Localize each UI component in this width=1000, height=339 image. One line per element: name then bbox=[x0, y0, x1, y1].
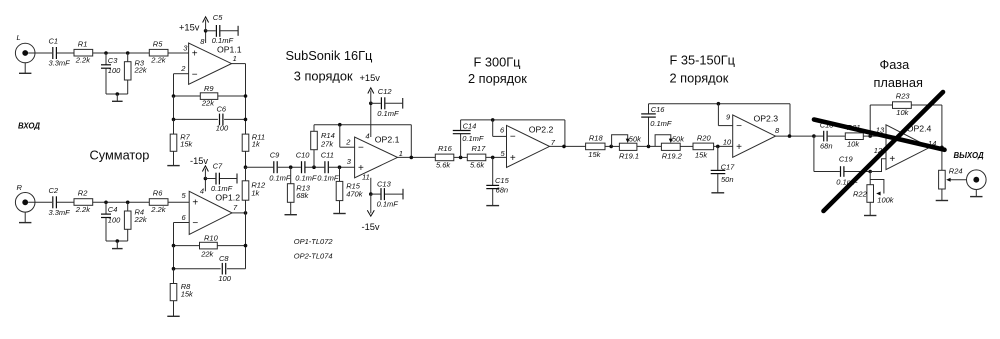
svg-text:C19: C19 bbox=[839, 155, 854, 164]
svg-text:100: 100 bbox=[218, 274, 231, 283]
svg-text:+: + bbox=[510, 153, 516, 164]
wire R18 to R19.1 bbox=[605, 145, 619, 149]
svg-text:+15v: +15v bbox=[179, 23, 200, 33]
svg-text:SubSonik 16Гц: SubSonik 16Гц bbox=[286, 48, 373, 63]
node C3 top bbox=[104, 51, 108, 55]
resistor R6 2.2k bbox=[149, 189, 168, 214]
svg-text:2.2k: 2.2k bbox=[75, 205, 91, 214]
capacitor C10 0.1mF bbox=[295, 151, 317, 183]
svg-text:2 порядок: 2 порядок bbox=[670, 71, 729, 86]
svg-text:27k: 27k bbox=[320, 139, 334, 148]
svg-text:OP2.2: OP2.2 bbox=[529, 125, 554, 135]
wire R20 to OP2.3 pin 10 bbox=[714, 137, 733, 148]
potentiometer R22 100k bbox=[853, 172, 895, 205]
power -15v (OP2.1 pin 11) bbox=[362, 178, 380, 232]
svg-text:0.1mF: 0.1mF bbox=[377, 109, 399, 118]
svg-text:15k: 15k bbox=[181, 289, 194, 298]
op-amp OP2.1 bbox=[355, 131, 403, 181]
wire C19 branch drop bbox=[813, 136, 815, 171]
svg-text:3: 3 bbox=[347, 157, 352, 166]
capacitor C12 0.1mF bbox=[371, 87, 403, 118]
svg-text:0.1mF: 0.1mF bbox=[317, 174, 339, 183]
svg-text:22k: 22k bbox=[134, 66, 148, 75]
svg-text:15k: 15k bbox=[180, 140, 193, 149]
ground (C17) bbox=[711, 192, 724, 194]
power -15v (OP1.2) bbox=[190, 156, 208, 180]
svg-text:+15v: +15v bbox=[360, 73, 381, 83]
svg-text:100: 100 bbox=[108, 215, 121, 224]
svg-text:7: 7 bbox=[551, 138, 556, 147]
resistor R11 1k bbox=[242, 133, 265, 152]
svg-text:Фаза: Фаза bbox=[880, 57, 911, 72]
wire C3/R3 bottom bracket bbox=[106, 80, 128, 96]
svg-text:0.1mF: 0.1mF bbox=[212, 36, 234, 45]
svg-text:R10: R10 bbox=[204, 233, 219, 242]
svg-text:плавная: плавная bbox=[874, 75, 923, 90]
wire jack L to C1 bbox=[28, 52, 52, 54]
svg-text:R23: R23 bbox=[896, 92, 911, 101]
svg-text:ВХОД: ВХОД bbox=[18, 122, 40, 131]
wire OP1.1 pin 8 power stub bbox=[205, 31, 207, 43]
resistor R18 15k bbox=[586, 134, 605, 160]
svg-text:100: 100 bbox=[108, 66, 121, 75]
wire C9 to C10 bbox=[278, 165, 301, 169]
capacitor C11 0.1mF bbox=[317, 151, 339, 183]
svg-text:0.1mF: 0.1mF bbox=[211, 184, 233, 193]
svg-text:1k: 1k bbox=[252, 140, 261, 149]
svg-text:OP2.1: OP2.1 bbox=[375, 134, 400, 144]
svg-text:C6: C6 bbox=[217, 104, 227, 113]
svg-text:C1: C1 bbox=[49, 37, 59, 46]
svg-text:8: 8 bbox=[200, 37, 205, 46]
wire OP2.1 output node bbox=[398, 125, 436, 160]
resistor R5 2.2k bbox=[149, 39, 168, 64]
svg-text:R: R bbox=[17, 183, 23, 192]
wire OP2.1 feedback rail bbox=[314, 123, 411, 127]
svg-text:1: 1 bbox=[233, 54, 237, 63]
jack L bbox=[15, 33, 35, 63]
svg-text:3: 3 bbox=[183, 43, 188, 52]
svg-text:C10: C10 bbox=[296, 151, 311, 160]
wire R10 feedback row bbox=[172, 244, 248, 248]
svg-text:2: 2 bbox=[345, 138, 351, 147]
wire C8 feedback row bbox=[172, 246, 246, 271]
node C18 C19 split bbox=[812, 134, 816, 138]
svg-text:3.3mF: 3.3mF bbox=[49, 59, 71, 68]
svg-text:15k: 15k bbox=[588, 150, 601, 159]
potentiometer R19.2 50k bbox=[655, 135, 685, 161]
svg-text:Сумматор: Сумматор bbox=[90, 147, 150, 162]
resistor R17 5.6k bbox=[467, 144, 486, 170]
svg-text:0.1mF: 0.1mF bbox=[377, 200, 399, 209]
wire OP1.1 output to right rail bbox=[232, 64, 246, 135]
svg-text:0.1mF: 0.1mF bbox=[295, 174, 317, 183]
capacitor C3 100 bbox=[101, 53, 121, 94]
svg-text:OP1.2: OP1.2 bbox=[215, 193, 240, 203]
resistor R3 22k bbox=[124, 53, 147, 80]
svg-text:ВЫХОД: ВЫХОД bbox=[954, 151, 984, 160]
capacitor C7 0.1mF bbox=[205, 162, 237, 194]
svg-text:5.6k: 5.6k bbox=[470, 161, 485, 170]
svg-text:F 35-150Гц: F 35-150Гц bbox=[670, 53, 736, 68]
svg-text:+: + bbox=[192, 49, 198, 60]
svg-text:22k: 22k bbox=[200, 249, 214, 258]
wire OP2.3 feedback rail bbox=[649, 102, 791, 106]
wire C6 feedback row bbox=[172, 96, 248, 121]
ground (R24) bbox=[936, 189, 948, 201]
resistor R7 15k bbox=[170, 119, 193, 151]
svg-text:R6: R6 bbox=[153, 189, 163, 198]
wire OP2.2 feedback rail bbox=[461, 118, 565, 122]
wire C11 to OP2.1 pin 3 bbox=[329, 157, 355, 169]
resistor R8 15k bbox=[170, 269, 194, 301]
wire OP2.1 pin 2 drop bbox=[340, 125, 355, 148]
capacitor C2 3.3mF bbox=[49, 186, 71, 217]
svg-text:C16: C16 bbox=[651, 105, 666, 114]
resistor R2 2.2k bbox=[74, 189, 93, 214]
wire R5 to OP1.1 pin 3 bbox=[168, 43, 189, 53]
svg-text:C4: C4 bbox=[108, 205, 118, 214]
wire OP2.2 pin 6 drop bbox=[493, 120, 507, 136]
resistor R12 1k bbox=[242, 167, 266, 200]
svg-text:5.6k: 5.6k bbox=[436, 161, 451, 170]
ground (R15) bbox=[333, 201, 345, 214]
svg-text:4: 4 bbox=[200, 187, 204, 196]
potentiometer R24 output level bbox=[939, 147, 963, 189]
potentiometer R19.1 50k bbox=[612, 135, 643, 161]
node R3 top bbox=[126, 51, 130, 55]
resistor R16 5.6k bbox=[435, 144, 454, 170]
wire OP2.3 output node bbox=[776, 104, 814, 138]
wire OP1.2 pin 4 power stub bbox=[204, 179, 206, 192]
svg-text:9: 9 bbox=[726, 113, 731, 122]
ground (jack output) bbox=[970, 190, 982, 197]
svg-text:8: 8 bbox=[775, 126, 780, 135]
svg-text:10k: 10k bbox=[847, 139, 860, 148]
jack R bbox=[15, 183, 35, 212]
svg-text:F 300Гц: F 300Гц bbox=[474, 55, 522, 70]
svg-text:0.1mF: 0.1mF bbox=[269, 174, 291, 183]
svg-text:15k: 15k bbox=[695, 151, 708, 160]
ground (R13) bbox=[285, 202, 297, 214]
ground (jack R) bbox=[19, 212, 31, 223]
resistor R9 22k bbox=[200, 84, 218, 108]
svg-text:100k: 100k bbox=[877, 196, 895, 205]
svg-text:-15v: -15v bbox=[362, 222, 380, 232]
svg-text:R16: R16 bbox=[438, 144, 453, 153]
svg-text:6: 6 bbox=[182, 213, 187, 222]
node R4 top bbox=[126, 201, 130, 205]
resistor R21 10k bbox=[845, 123, 863, 148]
resistor R13 68k bbox=[287, 167, 310, 202]
svg-text:OP1.1: OP1.1 bbox=[217, 45, 242, 55]
svg-text:0.1mF: 0.1mF bbox=[650, 119, 672, 128]
svg-text:OP2-TL074: OP2-TL074 bbox=[294, 251, 333, 260]
capacitor C1 3.3mF bbox=[49, 37, 71, 68]
resistor R23 10k bbox=[870, 92, 942, 117]
svg-text:22k: 22k bbox=[134, 215, 148, 224]
svg-text:68k: 68k bbox=[296, 191, 309, 200]
svg-text:3.3mF: 3.3mF bbox=[49, 208, 71, 217]
svg-text:5: 5 bbox=[182, 191, 187, 200]
svg-text:R1: R1 bbox=[78, 39, 88, 48]
power +15v (OP1.1) bbox=[179, 17, 209, 33]
svg-text:R20: R20 bbox=[697, 134, 712, 143]
svg-text:2.2k: 2.2k bbox=[75, 56, 91, 65]
svg-text:C8: C8 bbox=[219, 254, 229, 263]
op-amp OP1.2 bbox=[189, 187, 240, 235]
capacitor C8 100 bbox=[218, 254, 231, 283]
wire jack R to C2 bbox=[28, 201, 52, 203]
wire R17 to OP2.2 pin 5 bbox=[486, 149, 507, 159]
cross stroke steep bbox=[824, 92, 944, 211]
op-amp OP1.1 bbox=[189, 37, 242, 84]
op-amp OP2.3 bbox=[733, 114, 780, 158]
svg-text:−: − bbox=[510, 132, 516, 143]
svg-text:R17: R17 bbox=[472, 144, 487, 153]
wire C2 to R2 bbox=[57, 201, 74, 203]
svg-text:10k: 10k bbox=[896, 108, 909, 117]
svg-text:L: L bbox=[17, 33, 21, 42]
svg-text:2.2k: 2.2k bbox=[150, 56, 166, 65]
resistor R14 27k bbox=[311, 125, 335, 168]
cross stroke shallow bbox=[814, 120, 945, 150]
wire R2 to R6 bbox=[93, 201, 150, 203]
resistor R15 470k bbox=[336, 167, 364, 200]
svg-text:R24: R24 bbox=[949, 167, 963, 176]
svg-text:5: 5 bbox=[501, 149, 506, 158]
power +15v (OP2.1) bbox=[360, 73, 381, 137]
capacitor C6 100 bbox=[216, 104, 229, 132]
svg-text:50k: 50k bbox=[672, 135, 685, 144]
svg-text:R19.1: R19.1 bbox=[619, 152, 639, 161]
wire OP2.3 pin 9 drop bbox=[718, 104, 732, 126]
jack output bbox=[967, 170, 987, 190]
wire R6 to OP1.2 pin 5 bbox=[168, 191, 189, 202]
capacitor C17 50n bbox=[711, 146, 735, 192]
ground (C15) bbox=[486, 205, 499, 207]
wire C10 to C11 bbox=[306, 165, 325, 169]
svg-text:0.1mF: 0.1mF bbox=[462, 134, 484, 143]
capacitor C15 68n bbox=[486, 157, 509, 205]
capacitor C5 0.1mF bbox=[206, 13, 239, 45]
wire R16 to R17 bbox=[454, 156, 468, 160]
svg-text:C14: C14 bbox=[463, 121, 477, 130]
wire C4/R4 bottom bracket bbox=[106, 230, 128, 243]
node C4 top bbox=[104, 201, 108, 205]
svg-text:1k: 1k bbox=[251, 188, 260, 197]
svg-text:−: − bbox=[192, 69, 198, 80]
svg-text:OP2.3: OP2.3 bbox=[754, 114, 779, 124]
capacitor C13 0.1mF bbox=[371, 179, 403, 208]
svg-text:4: 4 bbox=[365, 131, 369, 140]
svg-text:R2: R2 bbox=[78, 189, 88, 198]
svg-text:−: − bbox=[358, 142, 364, 153]
svg-text:-15v: -15v bbox=[190, 156, 208, 166]
svg-text:10: 10 bbox=[723, 137, 732, 146]
svg-text:100: 100 bbox=[216, 124, 229, 133]
svg-text:11: 11 bbox=[362, 172, 370, 181]
svg-text:R9: R9 bbox=[204, 84, 214, 93]
ground (R22) bbox=[864, 202, 876, 215]
wire R1 to node, through to R5 bbox=[93, 52, 150, 54]
op-amp OP2.4 bbox=[886, 124, 936, 170]
svg-text:68n: 68n bbox=[496, 186, 509, 195]
wire OP2.4 feedback right vertical bbox=[930, 105, 944, 149]
wire OP1.2 output to right rail bbox=[232, 200, 247, 269]
wire R24 wiper arrow bbox=[946, 178, 966, 182]
wire R9 feedback row bbox=[172, 94, 248, 98]
svg-text:50n: 50n bbox=[721, 175, 734, 184]
svg-text:−: − bbox=[736, 121, 742, 132]
svg-text:C3: C3 bbox=[108, 56, 118, 65]
resistor R20 15k bbox=[693, 134, 714, 160]
svg-text:+: + bbox=[889, 154, 895, 165]
wire R19.1 to R19.2 bbox=[637, 145, 662, 149]
op-amp OP2.2 bbox=[507, 125, 556, 168]
wire C19 to OP2.4 pin 12 bbox=[868, 146, 886, 173]
resistor R1 2.2k bbox=[74, 39, 93, 64]
svg-text:3 порядок: 3 порядок bbox=[294, 69, 353, 84]
svg-text:R22: R22 bbox=[853, 189, 868, 198]
svg-text:−: − bbox=[192, 218, 198, 229]
wire OP2.2 output node bbox=[550, 120, 586, 148]
wire R11 to summing node bbox=[244, 151, 248, 169]
svg-text:C11: C11 bbox=[321, 151, 334, 160]
svg-text:6: 6 bbox=[500, 125, 505, 134]
wire R21 to OP2.4 pin 13 bbox=[863, 126, 886, 138]
svg-text:2: 2 bbox=[180, 64, 186, 73]
svg-text:50k: 50k bbox=[629, 135, 642, 144]
svg-text:+: + bbox=[736, 142, 742, 153]
svg-text:22k: 22k bbox=[201, 99, 215, 108]
capacitor C18 68n bbox=[814, 121, 845, 151]
capacitor C4 100 bbox=[101, 202, 121, 241]
resistor R4 22k bbox=[124, 202, 147, 229]
ground (R8) bbox=[167, 301, 179, 317]
wire OP1.2 pin 6 to left rail bbox=[174, 213, 190, 246]
svg-text:C2: C2 bbox=[49, 186, 59, 195]
svg-text:1: 1 bbox=[399, 149, 403, 158]
svg-text:C17: C17 bbox=[721, 163, 736, 172]
capacitor C16 0.1mF bbox=[641, 104, 672, 147]
svg-text:68n: 68n bbox=[820, 142, 833, 151]
svg-text:C5: C5 bbox=[213, 13, 223, 22]
svg-text:C12: C12 bbox=[378, 87, 393, 96]
ground (C3 R3) bbox=[112, 94, 123, 101]
svg-text:+: + bbox=[192, 197, 198, 208]
capacitor C19 0.1mF bbox=[814, 155, 870, 187]
ground (R7) bbox=[167, 151, 179, 165]
ground (jack L) bbox=[19, 63, 31, 74]
svg-text:R19.2: R19.2 bbox=[662, 152, 683, 161]
svg-text:R18: R18 bbox=[589, 134, 604, 143]
wire R19.2 to R20 bbox=[680, 145, 693, 147]
wire OP1.1 pin 2 to left rail bbox=[174, 64, 189, 96]
wire C1 to R1 bbox=[57, 52, 74, 54]
svg-text:7: 7 bbox=[233, 203, 238, 212]
wire OP2.4 feedback left vertical bbox=[869, 105, 871, 136]
svg-text:R5: R5 bbox=[153, 39, 163, 48]
svg-text:C9: C9 bbox=[270, 151, 280, 160]
svg-text:470k: 470k bbox=[346, 190, 364, 199]
svg-text:OP1-TL072: OP1-TL072 bbox=[294, 237, 334, 246]
capacitor C9 0.1mF bbox=[269, 151, 291, 183]
ground (C4 R4) bbox=[112, 241, 123, 249]
svg-text:C7: C7 bbox=[213, 162, 223, 171]
wire summing node to C9 bbox=[246, 166, 274, 168]
capacitor C14 0.1mF bbox=[453, 120, 484, 157]
resistor R10 22k bbox=[200, 233, 219, 258]
svg-text:C13: C13 bbox=[377, 179, 392, 188]
svg-text:2.2k: 2.2k bbox=[150, 205, 166, 214]
svg-text:2 порядок: 2 порядок bbox=[468, 71, 527, 86]
svg-text:C15: C15 bbox=[495, 176, 510, 185]
